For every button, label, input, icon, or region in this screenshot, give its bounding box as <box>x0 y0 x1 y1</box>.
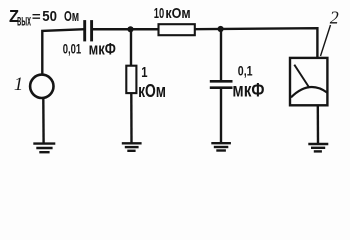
svg-text:2: 2 <box>330 8 339 28</box>
ground under C2 <box>211 143 231 150</box>
svg-text:кОм: кОм <box>138 81 166 101</box>
svg-text:10: 10 <box>154 5 164 22</box>
ground under source <box>33 144 55 153</box>
label Zвых = 50 Ом <box>9 6 79 29</box>
svg-text:0,1: 0,1 <box>238 62 253 78</box>
capacitor C1 0,01 мкФ plates <box>83 20 86 41</box>
svg-text:Ом: Ом <box>64 8 79 25</box>
svg-text:кОм: кОм <box>165 5 190 22</box>
resistor R1 10 кОм <box>159 24 195 35</box>
wire: from source top up and right to capacitor C1 left plate <box>42 29 84 74</box>
svg-text:0,01: 0,01 <box>63 41 82 57</box>
svg-text:мкФ: мкФ <box>89 41 116 59</box>
svg-text:мкФ: мкФ <box>232 80 264 101</box>
wire: junction2 down to capacitor C2 <box>220 29 222 81</box>
ground under meter <box>308 144 328 151</box>
meter needle <box>294 65 309 88</box>
svg-text:50: 50 <box>42 8 57 25</box>
label 1 кОм <box>138 64 166 101</box>
resistor R2 1 кОм <box>126 66 136 93</box>
meter scale arc <box>291 87 327 97</box>
label 10 кОм <box>154 5 191 22</box>
wire: junction1 down to resistor R2 <box>130 29 132 66</box>
wire: C1 right plate to resistor R1 <box>92 28 159 30</box>
leader line from 2 to meter corner <box>321 25 331 56</box>
svg-text:1: 1 <box>14 74 23 95</box>
wire: source bottom to ground <box>42 98 45 143</box>
generator 1 (source circle) <box>30 75 53 98</box>
ground under R2 <box>122 143 142 151</box>
svg-text:=: = <box>32 9 41 24</box>
indicator 2 (meter box) <box>290 58 327 105</box>
node junction dot right <box>218 26 224 32</box>
wire: C2 bottom to ground <box>220 89 222 143</box>
wire: R2 bottom to ground <box>130 93 133 142</box>
svg-text:1: 1 <box>141 64 147 81</box>
capacitor C2 0,1 мкФ plates <box>210 80 233 83</box>
label 0,1 мкФ <box>232 62 264 101</box>
svg-text:вых: вых <box>17 12 31 29</box>
wire: meter bottom to ground <box>317 105 320 143</box>
wire: R1 right to corner above meter <box>195 28 318 58</box>
node junction dot left <box>127 26 133 32</box>
label 0,01 мкФ <box>63 41 116 59</box>
